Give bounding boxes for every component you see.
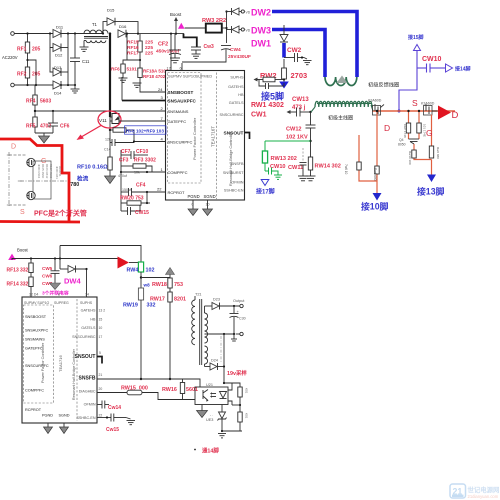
resistor RF5 [26,117,51,133]
svg-text:8: 8 [58,293,60,297]
ground PGND [188,200,198,216]
wire right bus orange [372,110,455,112]
svg-text:COMPPFC: COMPPFC [168,170,188,175]
wire gate net left [359,111,377,193]
IC U1 right pin labels [219,76,244,193]
capacitor CW2 [284,47,304,62]
svg-text:HB: HB [90,318,96,322]
node AC terminal N [11,83,15,87]
zener UE3 [206,405,227,432]
svg-text:332: 332 [20,282,29,288]
svg-text:OFMIN: OFMIN [231,181,243,185]
svg-text:RF18 4702: RF18 4702 [143,74,166,79]
wire SNSAUXPFC thick [122,100,166,102]
pin 12 stub [170,34,172,71]
transformer core mark [337,76,348,84]
svg-text:RW19: RW19 [123,303,138,309]
svg-text:D16: D16 [119,24,127,29]
svg-text:7w6 10: 7w6 10 [344,164,348,175]
resistor 101 [417,123,421,133]
wire boost rail [126,33,184,35]
svg-text:HB: HB [238,93,244,97]
resistor RF8 [109,128,134,142]
wire GATEPFC [119,120,166,122]
svg-text:SNSMAINS: SNSMAINS [25,338,45,342]
svg-text:102: 102 [146,268,155,274]
svg-text:5603: 5603 [40,99,51,105]
svg-text:SNSCURPFC: SNSCURPFC [25,364,49,368]
svg-text:RF8 102+RF9 103: RF8 102+RF9 103 [126,128,164,133]
resistor RF2 [25,67,29,78]
svg-text:RF10 0.16Ω: RF10 0.16Ω [77,165,108,171]
svg-text:初级主线圈: 初级主线圈 [328,115,353,122]
svg-text:CW15: CW15 [135,210,149,216]
svg-text:SNSCURHBC: SNSCURHBC [219,113,243,117]
svg-text:SUPMV SUP1O: SUPMV SUP1O [168,74,196,79]
resistor K02 [238,412,249,431]
diode D13 [53,65,62,76]
svg-text:SNSOUT: SNSOUT [75,354,96,360]
resistor RW16 [162,379,198,400]
resistor RW14 [308,157,312,170]
transformer T21 [192,293,208,367]
svg-text:SNSFB: SNSFB [231,162,244,166]
wire SNSMAINS long [35,110,166,112]
svg-text:Cw14: Cw14 [108,405,121,411]
svg-text:RW13 202: RW13 202 [271,156,297,162]
svg-text:D15: D15 [107,8,115,13]
wire center tap [205,333,235,335]
svg-text:150uf: 150uf [122,188,131,192]
svg-text:SSHBC-EN: SSHBC-EN [76,416,95,420]
svg-text:RF6: RF6 [111,67,120,72]
svg-text:SGND: SGND [204,194,216,199]
svg-text:RCPROT: RCPROT [25,408,42,412]
svg-text:22: 22 [99,414,103,418]
svg-text:SNSAUXPFC: SNSAUXPFC [25,329,48,333]
inductor primary coil [315,101,372,107]
svg-text:RF2: RF2 [17,72,27,78]
svg-text:D14: D14 [54,91,62,96]
svg-text:21dianyuan.com: 21dianyuan.com [468,494,499,499]
IC U2 TEA1716 [22,297,97,423]
wire RF5 CF6 bottom [35,132,53,134]
svg-text:4702: 4702 [40,124,51,130]
svg-text:22: 22 [157,187,162,192]
svg-text:102 1KV: 102 1KV [286,135,308,141]
capacitor C14 [104,139,134,152]
svg-text:Cw15: Cw15 [106,427,119,433]
ground RF5 [39,136,50,143]
svg-text:w8: w8 [143,283,151,288]
svg-text:10k: 10k [134,171,140,175]
svg-text:RW17: RW17 [150,297,165,303]
svg-text:SUPHS: SUPHS [80,301,93,305]
svg-text:K01: K01 [245,413,249,419]
svg-text:PGND: PGND [42,414,53,418]
diode D24 [205,359,226,371]
svg-text:SNSAUXPFC: SNSAUXPFC [168,99,197,104]
svg-text:CW12: CW12 [286,127,302,133]
transistor Q4 [409,139,420,144]
wire bottom rail [12,259,118,261]
resistor K01 [238,387,249,412]
svg-text:GATELS: GATELS [81,326,96,330]
node D red triangle [438,106,451,120]
svg-text:CF7: CF7 [121,149,131,155]
wire comp cluster vertical [120,150,122,211]
detail rotated texts [37,164,62,179]
svg-text:332: 332 [20,268,29,274]
IC U2 dashed boxes [24,305,54,403]
svg-text:Cw3: Cw3 [204,44,215,50]
ground tap tick [231,334,237,341]
svg-text:DW3: DW3 [251,26,271,36]
svg-text:- .: - . [210,413,213,417]
wire SNSCURPFC [134,141,166,143]
svg-text:780: 780 [70,182,79,188]
svg-text:VD: VD [246,29,251,33]
wire upper rail [60,246,141,263]
svg-text:12 D4: 12 D4 [29,293,38,297]
node Boost arrow [170,12,182,34]
svg-text:D: D [384,123,390,133]
svg-text:SUPMV SUP1O: SUPMV SUP1O [24,301,50,305]
resistor RW17 [150,292,186,379]
capacitor CW15 [121,205,149,216]
capacitor CF4 [121,183,166,204]
ground RW14 double [298,176,316,181]
capacitor CW10 green [265,168,278,176]
IC U1 TEA1716T [166,71,245,201]
resistor RF3 [121,158,156,175]
svg-text:T1: T1 [92,22,98,27]
svg-text:R107 4N60: R107 4N60 [49,164,53,179]
svg-text:473 j: 473 j [292,105,306,111]
svg-text:15: 15 [99,318,103,322]
capacitor C30 [230,306,246,334]
wire CW4 to pin6 [182,57,226,62]
svg-text:SNSMAINS: SNSMAINS [168,109,189,114]
ground U2 PGND [44,423,53,434]
ground SGND [203,200,213,216]
node arrow pin10 [373,193,382,201]
wire SNSBOOST [140,78,166,93]
diode D16 [118,24,127,37]
IC U1 pfc dashed box [168,73,202,184]
svg-text:S: S [20,209,25,216]
svg-text:接5脚: 接5脚 [261,91,284,102]
svg-text:225: 225 [145,45,153,51]
svg-text:U21: U21 [206,383,213,387]
svg-text:GATEPFC: GATEPFC [168,119,187,124]
wire RF2 bottom [27,78,29,85]
svg-text:Resonant Half-Bridge Controlle: Resonant Half-Bridge Controller [229,131,233,186]
svg-text:RF4: RF4 [26,99,36,105]
transistor V11 [110,114,119,131]
svg-text:RF15: RF15 [127,40,139,46]
wire SNSOUT stub [245,133,250,140]
resistor Rw6 680 right [429,146,433,158]
svg-text:17: 17 [99,335,103,339]
svg-text:K3A60D: K3A60D [421,102,435,106]
svg-text:RF16: RF16 [127,45,139,51]
svg-text:CW5: CW5 [42,266,53,271]
svg-text:20: 20 [99,387,103,391]
node arrow pin14 [446,64,453,72]
svg-text:接10脚: 接10脚 [361,201,389,212]
svg-text:CW1: CW1 [251,112,267,119]
svg-text:SGND: SGND [59,414,70,418]
resistor RF14 [7,273,34,298]
wire bridge verticals [50,34,53,48]
svg-text:CF3: CF3 [119,158,129,164]
svg-text:R105 4N60: R105 4N60 [41,164,45,179]
svg-text:C11: C11 [82,59,90,64]
svg-text:470uf: 470uf [118,174,127,178]
svg-text:332: 332 [147,303,156,309]
wire DW4 branch vertical [59,246,61,270]
svg-text:OFMIN: OFMIN [84,403,96,407]
svg-text:TEA1716T: TEA1716T [211,126,216,147]
annotation V11 red ellipse [98,111,121,128]
svg-text:Boost: Boost [170,12,182,17]
ground Cw3 [192,54,201,58]
wire box axis dashdot [7,152,68,206]
svg-text:R108 51: R108 51 [58,166,62,177]
svg-text:19v采样: 19v采样 [227,369,247,377]
capacitor CF6 [48,111,70,133]
svg-text:SNSBURST: SNSBURST [223,171,244,175]
resistor RW18 [152,278,183,292]
resistor 1748 [406,123,410,133]
svg-text:SUPREG: SUPREG [54,301,69,305]
svg-text:Rw10 100: Rw10 100 [408,151,412,165]
svg-text:G: G [426,128,433,138]
svg-text:D24: D24 [211,359,218,363]
wire V11 drain thick [109,34,111,114]
capacitor Cw3 [184,34,215,54]
wire RF column top [27,34,29,43]
annotation red arrow [77,126,102,141]
capacitor Cw15 [97,414,126,434]
capacitor CW4 [221,46,251,61]
svg-text:K3A60D: K3A60D [368,99,382,103]
ground CF2 [170,58,180,63]
svg-text:RW4: RW4 [127,268,139,274]
svg-text:GATEHS: GATEHS [81,309,96,313]
capacitor RW1 parallel [259,80,284,90]
svg-text:DIAGHBC: DIAGHBC [79,390,96,394]
svg-text:5101: 5101 [127,67,138,72]
svg-text:RF1: RF1 [17,47,27,53]
svg-text:SNSCURPFC: SNSCURPFC [168,140,193,145]
svg-text:CW10: CW10 [422,56,442,63]
svg-text:CF6: CF6 [60,124,70,130]
svg-text:DW1: DW1 [251,39,271,49]
svg-text:12: 12 [167,67,171,71]
transistor pfc sw1 [27,158,35,166]
resistor RF10 [108,157,112,176]
wire SNSOUT U2 stub [97,357,102,364]
node arrow pin13 [427,175,436,183]
wire DW1 blue [282,43,286,58]
svg-text:5: 5 [99,351,101,355]
node gray up arrow [166,268,175,279]
svg-text:PGND: PGND [188,194,200,199]
wire w8 [141,277,170,279]
svg-text:R106 G512: R106 G512 [45,164,49,179]
svg-text:4N60 R104: 4N60 R104 [37,164,41,179]
annotation red triangle right [118,257,130,269]
wire pin15 purple [399,51,417,111]
ground below C11 [71,85,80,93]
svg-text:RW16: RW16 [162,387,177,393]
svg-text:14: 14 [85,293,89,297]
label tong14jiao [194,449,196,451]
resistor RW3 2R2 [202,18,227,33]
resistor RW2 [260,59,307,82]
svg-text:AC220V: AC220V [2,55,18,60]
node AC terminal L [11,32,15,36]
wire tap y60 [28,60,37,85]
svg-text:VD: VD [246,11,251,15]
svg-text:SNSOUT: SNSOUT [224,131,244,137]
wire DW3 blue thick [272,30,325,78]
capacitor CW13 [287,108,312,117]
svg-text:通14脚: 通14脚 [202,447,219,455]
wire RF1-RF2 [27,53,29,67]
diode D15 branch [102,8,138,35]
transformer feedback winding [325,77,357,86]
diode D23 [205,298,240,310]
node arrow pin15 up [414,45,421,51]
svg-text:接14脚: 接14脚 [454,66,471,73]
wire DW2 blue thick [272,12,357,78]
svg-text:CF4: CF4 [136,183,146,189]
svg-text:D23: D23 [213,298,220,302]
svg-text:8201: 8201 [174,297,186,303]
svg-text:5601: 5601 [186,387,198,393]
wire dash return [220,336,222,362]
svg-text:D: D [452,110,459,121]
resistor Rw6 680 left [375,166,379,174]
junction dots AC lines [26,32,28,34]
svg-text:RF17: RF17 [127,51,139,57]
resistor RF6 5101 [121,64,125,73]
svg-text:24: 24 [158,87,163,92]
svg-text:SNSFB: SNSFB [79,376,96,382]
svg-text:RCPROT: RCPROT [168,190,185,195]
svg-text:3个并联电容: 3个并联电容 [42,290,69,297]
ground RF10 [105,176,116,184]
svg-text:RF13: RF13 [7,268,19,274]
diode to DW2 [226,8,251,15]
diode D12 [53,44,63,58]
svg-text:Rw6 680: Rw6 680 [436,147,440,159]
svg-text:接17脚: 接17脚 [255,188,275,196]
node Output minus [240,332,243,335]
wire RF6 column [127,34,140,60]
IC U2 right pin numbers [99,309,106,418]
inductor T1 [84,22,108,47]
resistor RF18A RF18 [138,68,142,78]
ground green [274,175,282,179]
svg-text:225: 225 [145,40,153,46]
ground opto [197,405,214,418]
resistor RW19 [123,288,156,379]
transistor K3A60D left [368,99,384,116]
svg-text:C30: C30 [239,317,246,321]
svg-text:GATELS: GATELS [229,101,244,105]
resistor RF15-17 stack [127,40,153,57]
svg-text:COMPPFC: COMPPFC [25,389,44,393]
svg-text:GATEHS: GATEHS [228,85,244,89]
svg-text:SNSBOOST: SNSBOOST [25,315,47,319]
svg-text:D11: D11 [56,25,64,30]
node arrow pin17 [261,180,269,186]
resistor RW13 [262,151,267,163]
wire opto mid [232,404,240,406]
svg-text:RW1 4302: RW1 4302 [251,102,284,109]
wire gate divider right [409,111,432,175]
svg-text:RW18: RW18 [152,282,167,288]
svg-text:CW4: CW4 [230,47,241,53]
svg-text:DW2: DW2 [251,8,271,18]
capacitor CF2 [156,34,181,58]
IC U2 left labels [25,315,49,412]
annotation red region bottom [0,220,80,223]
ground CW2 [303,58,312,65]
component detail rect [33,161,51,199]
ground T1 winding2 [80,47,89,51]
wire bottom rail2 [222,430,242,432]
wire DW column [226,12,228,44]
resistor RW20 [120,196,150,206]
svg-text:Q4: Q4 [399,138,404,142]
wire RW13 down [264,163,266,171]
resistor RW15 [97,386,195,400]
ground U2 SGND [60,423,69,434]
resistor RW1 [254,77,286,82]
svg-text:RF3 3302: RF3 3302 [134,158,156,164]
svg-text:世记电源网: 世记电源网 [468,485,500,494]
svg-text:SSHBC-EN: SSHBC-EN [224,189,244,193]
svg-text:6: 6 [180,67,182,71]
resistor left small [357,162,361,170]
IC U1 rhb dashed line [216,73,218,200]
svg-text:13 2: 13 2 [99,309,106,313]
svg-text:753: 753 [174,282,183,288]
svg-text:RW14 302: RW14 302 [315,164,341,170]
diode DW1 [280,25,288,42]
svg-text:SUPHS: SUPHS [230,76,244,80]
svg-text:DW4: DW4 [64,277,81,286]
svg-text:225: 225 [145,51,153,57]
capacitor CW12 [286,112,316,157]
svg-text:RF5: RF5 [26,124,36,130]
diode D11 [53,25,64,38]
node boost magenta triangle [178,23,185,29]
optocoupler U21 [195,383,228,405]
resistor RF13 [7,258,34,274]
transistor K3A60D right [421,102,438,116]
ground CW stack [50,283,61,290]
svg-text:205: 205 [32,47,41,53]
svg-text:RF14: RF14 [7,282,19,288]
svg-text:CF10: CF10 [136,149,148,155]
ground bottom [218,434,226,438]
